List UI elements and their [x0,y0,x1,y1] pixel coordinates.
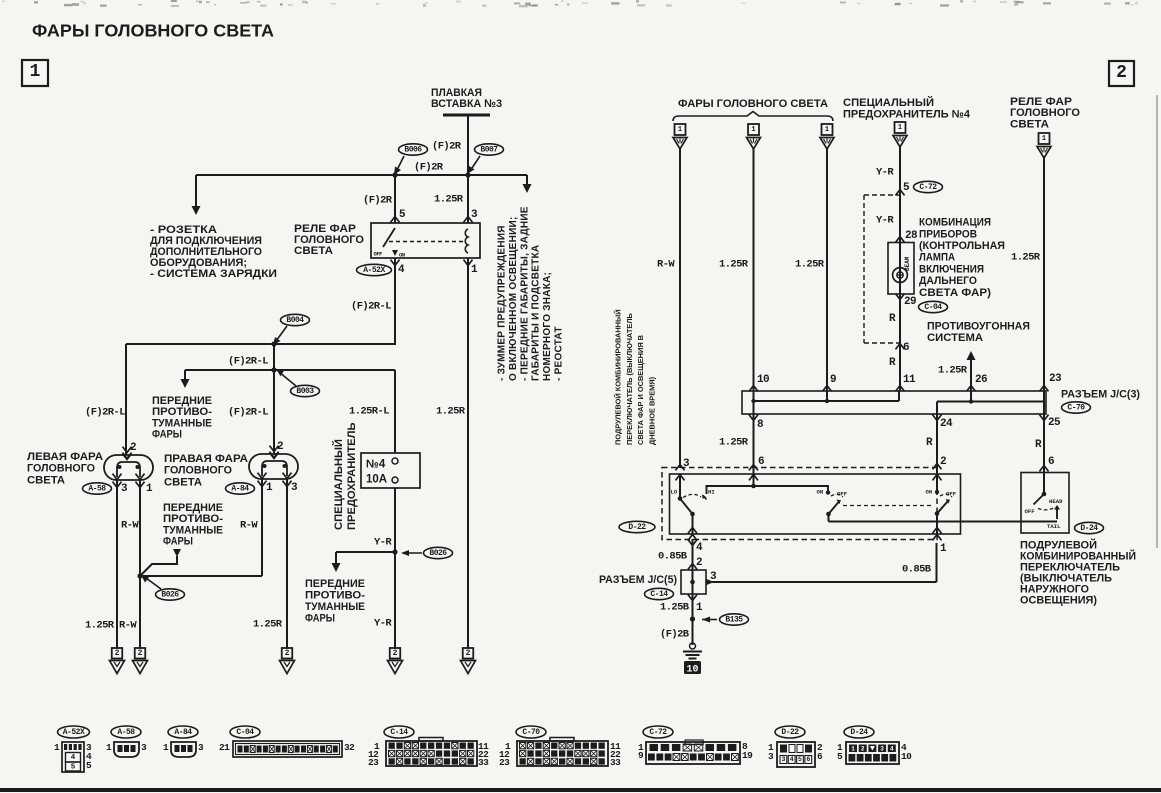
connector oval D-24 ref [1075,522,1104,533]
wire relay pin1 down long 1.25R [467,258,469,648]
beam indicator box [888,243,914,295]
right lamp pin3 wire [286,479,288,648]
passing switch ON-OFF [826,490,830,494]
sheet box 2 [1109,61,1134,86]
svg-text:BEAM: BEAM [904,256,911,271]
svg-text:ФАРЫ: ФАРЫ [305,612,335,624]
anti-theft arrow [970,358,972,391]
svg-text:1: 1 [678,126,682,134]
svg-text:3: 3 [198,742,204,753]
page bottom rule [0,788,1161,792]
svg-text:- СИСТЕМА ЗАРЯДКИ: - СИСТЕМА ЗАРЯДКИ [150,268,277,280]
svg-text:10: 10 [901,751,912,762]
svg-text:ГАБАРИТЫ И ПОДСВЕТКА: ГАБАРИТЫ И ПОДСВЕТКА [531,245,542,381]
svg-text:6: 6 [806,756,810,763]
dimmer output wire pin4 [692,514,694,534]
svg-text:ПЕРЕДНИЕ: ПЕРЕДНИЕ [152,395,212,407]
wire 1.25R c2 b [826,149,828,391]
svg-text:6: 6 [903,342,909,354]
terminal 2 mid [282,648,293,659]
headlamp relay K1 [371,223,480,258]
node y344 [271,341,276,346]
main switch output pin1 [936,514,938,535]
connector D-22 [775,726,805,738]
terminal 2 relay wire [463,648,474,659]
tail line to D-24 [829,521,1058,523]
svg-text:29: 29 [904,296,916,308]
svg-text:- РЕОСТАТ: - РЕОСТАТ [554,326,565,381]
left lamp pin3 wire [116,480,118,648]
main light switch ON-OFF [936,474,938,492]
svg-text:ФАРЫ ГОЛОВНОГО СВЕТА: ФАРЫ ГОЛОВНОГО СВЕТА [678,98,828,110]
svg-text:D-24: D-24 [850,728,868,737]
JC3 left bus [753,391,755,414]
svg-text:СВЕТА ФАР): СВЕТА ФАР) [919,287,991,299]
svg-text:№4: №4 [366,458,386,470]
svg-text:5: 5 [903,182,910,194]
connector C-14 [384,726,414,738]
svg-text:ТУМАННЫЕ: ТУМАННЫЕ [305,601,365,613]
connector C-72 [643,726,673,738]
passing arm [829,502,840,515]
terminal 2 fuse wire [390,648,401,659]
svg-text:1.25R: 1.25R [436,406,466,418]
connector oval B003 [291,385,320,396]
svg-text:ТУМАННЫЕ: ТУМАННЫЕ [163,524,223,536]
svg-text:B135: B135 [725,615,743,624]
svg-text:1.25R: 1.25R [85,620,115,632]
page right border [1156,95,1158,548]
wire pin6 into HI feed [753,474,755,486]
connector oval A-84 [226,483,255,494]
connector oval B026 right [424,547,453,558]
svg-text:1.25R: 1.25R [1011,252,1041,264]
svg-text:1.25R-L: 1.25R-L [349,406,389,418]
svg-text:C-04: C-04 [924,303,942,312]
connector A-84 [168,726,198,738]
connector oval C-72 ref [914,181,943,192]
svg-text:- ПЕРЕДНИЕ ГАБАРИТЫ, ЗАДНИЕ: - ПЕРЕДНИЕ ГАБАРИТЫ, ЗАДНИЕ [519,206,530,381]
svg-text:2: 2 [393,649,398,658]
svg-text:3: 3 [710,571,717,583]
svg-text:10: 10 [686,665,698,676]
connector oval C-04 ref [919,301,948,312]
D-24 off arm [1034,494,1045,505]
node y576 [137,573,142,578]
column switch name left rotated [614,309,657,445]
svg-text:СВЕТА ФАР И ОСВЕЩЕНИЯ В: СВЕТА ФАР И ОСВЕЩЕНИЯ В [636,335,645,445]
svg-text:ON: ON [817,489,824,496]
svg-text:2: 2 [696,557,702,569]
svg-text:0.85B: 0.85B [902,564,932,576]
svg-text:R-W: R-W [119,620,137,632]
svg-text:КОМБИНИРОВАННЫЙ: КОМБИНИРОВАННЫЙ [1020,549,1136,562]
source terminal lamp RH [822,124,833,135]
svg-text:R: R [1035,439,1042,451]
svg-text:5: 5 [71,763,76,771]
svg-text:C-14: C-14 [390,728,408,737]
svg-text:3: 3 [880,746,884,753]
wire below JC5 [692,594,694,645]
svg-text:C-70: C-70 [1067,403,1085,412]
svg-text:A-52X: A-52X [63,728,85,737]
connector oval A-52X [357,264,392,275]
svg-text:B007: B007 [480,145,498,154]
svg-text:B006: B006 [404,145,422,154]
svg-text:21: 21 [219,742,230,753]
connector oval B004 [281,314,310,325]
svg-text:6: 6 [817,751,823,762]
svg-text:1: 1 [751,126,755,134]
svg-text:ПРЕДОХРАНИТЕЛЬ №4: ПРЕДОХРАНИТЕЛЬ №4 [843,108,970,120]
dashed meter box [864,194,900,196]
dimmer contact LO-HI [679,474,681,497]
svg-text:C-14: C-14 [650,590,668,599]
node at x395 y175 [392,172,397,177]
svg-text:НОМЕРНОГО ЗНАКА;: НОМЕРНОГО ЗНАКА; [542,272,553,381]
node B135 [690,616,695,621]
svg-text:R-W: R-W [240,520,258,532]
svg-text:19: 19 [742,750,753,761]
svg-text:5: 5 [399,209,406,221]
svg-text:9: 9 [638,750,644,761]
passing output to tail line [828,514,830,522]
svg-text:ЛЕВАЯ ФАРА: ЛЕВАЯ ФАРА [27,451,103,463]
wire 1.25R c2 a [753,149,755,391]
left headlamp A-58 [104,455,153,480]
svg-text:ЛАМПА: ЛАМПА [919,252,955,264]
scan noise top edge [2,0,1138,7]
svg-text:5: 5 [86,760,92,771]
node y370 [271,367,276,372]
svg-text:1.25R: 1.25R [253,619,283,631]
svg-text:(F)2B: (F)2B [660,629,690,641]
wire JC3 pin24 down [936,414,938,492]
svg-text:ФАРЫ: ФАРЫ [152,429,182,441]
svg-text:СПЕЦИАЛЬНЫЙ: СПЕЦИАЛЬНЫЙ [843,96,934,109]
svg-text:(F)2R-L: (F)2R-L [228,407,268,419]
wire relay c2 down [1043,158,1045,391]
fog lamp branch from node [140,556,177,576]
D-24 head-tail switch box [1021,473,1069,534]
svg-text:ВКЛЮЧЕНИЯ: ВКЛЮЧЕНИЯ [919,263,984,275]
junction box JC3 [742,391,1046,414]
svg-text:HEAD: HEAD [1049,498,1063,505]
bus wire y344 [126,343,396,345]
bus wire y576 [140,575,262,577]
svg-text:26: 26 [975,374,987,386]
dimmer arm [680,499,693,515]
mechanical link dashed [843,505,931,507]
svg-text:10: 10 [757,374,769,386]
svg-text:3: 3 [781,756,785,763]
svg-text:2: 2 [861,746,865,753]
pin 6 dashed box exit [896,344,905,350]
svg-text:23: 23 [1049,373,1062,385]
terminal 2 left a [112,648,123,659]
svg-text:Y-R: Y-R [374,618,392,630]
svg-text:(F)2R-L: (F)2R-L [85,407,125,419]
svg-text:1: 1 [696,602,703,614]
svg-text:1.25R: 1.25R [434,194,464,206]
svg-text:OFF: OFF [1025,508,1036,515]
svg-text:(КОНТРОЛЬНАЯ: (КОНТРОЛЬНАЯ [919,240,1005,252]
wire fuse c2 down [899,147,901,391]
wire relay pin4 down [394,258,396,344]
connector C-70 [516,726,546,738]
svg-text:О ВКЛЮЧЕННОМ ОСВЕЩЕНИИ;: О ВКЛЮЧЕННОМ ОСВЕЩЕНИИ; [508,216,519,381]
svg-text:A-58: A-58 [88,484,106,493]
wire below fuse [394,488,396,648]
ground ref 10 [684,661,701,674]
connector A-58 [111,726,141,738]
svg-text:ГОЛОВНОГО: ГОЛОВНОГО [27,463,95,475]
svg-text:R: R [926,437,933,449]
fog branch y552 [336,551,395,553]
D-24 input wire [1043,473,1045,495]
fuse terminals [392,458,398,464]
svg-text:4: 4 [398,264,405,276]
svg-text:3: 3 [121,483,128,495]
svg-text:ПЕРЕКЛЮЧАТЕЛЬ (ВЫКЛЮЧАТЕЛЬ: ПЕРЕКЛЮЧАТЕЛЬ (ВЫКЛЮЧАТЕЛЬ [625,312,634,445]
node y552 [392,549,397,554]
svg-text:СВЕТА: СВЕТА [164,476,202,488]
column switch dashed box D-22 [662,468,937,540]
svg-text:2: 2 [130,442,136,454]
bus wire y175 [196,174,527,176]
svg-text:C-72: C-72 [919,183,937,192]
JC3 right bus [937,401,1044,403]
pin 29 [896,294,905,300]
svg-text:C-70: C-70 [522,728,540,737]
fusible link bar [443,114,490,117]
column switch solid box [670,474,961,534]
source terminal lamp mid [748,124,759,135]
svg-text:2: 2 [138,649,143,658]
svg-text:6: 6 [1048,456,1054,468]
svg-text:R-W: R-W [657,259,675,271]
svg-text:1: 1 [30,62,41,82]
connector A-52X [58,726,90,738]
svg-text:A-58: A-58 [117,728,135,737]
svg-text:ПРОТИВОУГОННАЯ: ПРОТИВОУГОННАЯ [927,321,1030,333]
svg-text:23: 23 [499,757,510,768]
right lamp pin1 wire [261,479,263,576]
svg-text:1: 1 [106,742,112,753]
svg-text:3: 3 [291,482,298,494]
svg-text:ДНЕВНОЕ ВРЕМЯ): ДНЕВНОЕ ВРЕМЯ) [647,376,656,445]
svg-text:ФАРЫ ГОЛОВНОГО СВЕТА: ФАРЫ ГОЛОВНОГО СВЕТА [32,21,274,41]
svg-text:СИСТЕМА: СИСТЕМА [927,332,983,344]
svg-text:ТУМАННЫЕ: ТУМАННЫЕ [152,417,212,429]
svg-text:3: 3 [768,751,774,762]
connector oval D-22 ref [619,521,655,532]
svg-text:R-W: R-W [121,520,139,532]
connector oval B006 [399,144,428,155]
svg-text:6: 6 [758,456,764,468]
svg-text:(F)2R: (F)2R [432,141,462,153]
right headlamp A-84 [249,454,298,479]
wire relay pin5 [394,175,396,223]
svg-text:1.25R: 1.25R [719,259,749,271]
svg-text:РАЗЪЕМ J/C(5): РАЗЪЕМ J/C(5) [599,574,677,586]
wire branch left to accessories arrow [195,175,197,210]
svg-text:1.25B: 1.25B [660,602,690,614]
svg-text:ВСТАВКА №3: ВСТАВКА №3 [431,98,502,110]
svg-text:1: 1 [851,746,855,753]
svg-text:B026: B026 [429,549,447,558]
svg-text:РАЗЪЕМ J/C(3): РАЗЪЕМ J/C(3) [1061,389,1140,401]
wire JC3 pin25 down [1043,414,1045,472]
svg-text:ON: ON [926,489,933,496]
svg-text:1: 1 [471,264,478,276]
svg-text:- ЗУММЕР ПРЕДУПРЕЖДЕНИЯ: - ЗУММЕР ПРЕДУПРЕЖДЕНИЯ [497,225,508,381]
svg-text:1: 1 [940,543,947,555]
svg-text:ОСВЕЩЕНИЯ): ОСВЕЩЕНИЯ) [1020,595,1097,607]
wire right headlamp feed [273,370,275,454]
wire node drop [273,344,275,370]
svg-text:СПЕЦИАЛЬНЫЙ: СПЕЦИАЛЬНЫЙ [332,439,345,530]
wire left headlamp feed [125,344,127,455]
HI feed line [707,486,829,494]
svg-text:1: 1 [266,482,273,494]
JC5 pin3 line [706,581,937,583]
svg-text:ПРЕДОХРАНИТЕЛЬ: ПРЕДОХРАНИТЕЛЬ [346,422,358,530]
svg-text:C-72: C-72 [649,728,667,737]
wire relay pin3 [467,175,469,223]
svg-text:ON: ON [399,252,405,258]
pin 28 [896,237,905,243]
source terminal lamp LH [675,124,686,135]
svg-text:Y-R: Y-R [876,167,894,179]
svg-text:B003: B003 [296,387,314,396]
svg-text:B026: B026 [161,590,179,599]
svg-text:23: 23 [368,757,379,768]
svg-text:A-52X: A-52X [363,266,385,275]
wire branch right to buzzer arrow [526,175,528,188]
svg-text:4: 4 [890,746,894,753]
svg-text:(F)2R-L: (F)2R-L [228,356,268,368]
svg-text:ПРАВАЯ ФАРА: ПРАВАЯ ФАРА [164,453,248,465]
svg-text:ПЕРЕДНИЕ: ПЕРЕДНИЕ [163,502,223,514]
svg-text:ФАРЫ: ФАРЫ [163,536,193,548]
source terminal relay c2 [1039,133,1050,144]
front fog arrow 1 [184,370,186,382]
svg-text:1.25R: 1.25R [938,365,968,377]
svg-text:1: 1 [163,742,169,753]
svg-text:28: 28 [905,230,918,242]
svg-text:A-84: A-84 [231,484,249,493]
svg-text:1: 1 [54,742,60,753]
bus wire y370 [185,369,395,371]
svg-text:ГОЛОВНОГО: ГОЛОВНОГО [164,465,232,477]
svg-text:9: 9 [830,374,836,386]
svg-text:ПРОТИВО-: ПРОТИВО- [152,406,212,418]
svg-text:ГОЛОВНОГО: ГОЛОВНОГО [1010,107,1080,119]
wire JC3 pin8 down [753,414,755,474]
connector oval C-70 ref [1062,402,1091,413]
svg-text:2: 2 [115,649,120,658]
svg-text:СВЕТА: СВЕТА [27,474,65,486]
svg-text:TAIL: TAIL [1047,523,1061,530]
svg-text:HI: HI [708,489,715,496]
svg-text:32: 32 [344,742,355,753]
svg-text:2: 2 [285,649,290,658]
svg-text:ПРОТИВО-: ПРОТИВО- [305,589,365,601]
brace [673,112,833,122]
fuse No4 box [361,453,420,488]
connector oval B007 [475,144,504,155]
connector oval B026 left [156,589,185,600]
ground symbol [690,643,696,649]
svg-text:СВЕТА: СВЕТА [294,245,333,257]
svg-text:ПРИБОРОВ: ПРИБОРОВ [919,228,977,240]
source terminal fuse c2 [895,122,906,133]
svg-text:D-24: D-24 [1080,524,1098,533]
svg-text:0.85B: 0.85B [658,551,688,563]
svg-text:B004: B004 [286,316,304,325]
sheet box 1 [22,60,48,86]
svg-text:1: 1 [898,124,902,132]
svg-text:2: 2 [940,456,946,468]
svg-text:R: R [889,357,896,369]
svg-text:24: 24 [940,418,953,430]
node at x468 y175 [465,172,470,177]
svg-text:2: 2 [1116,63,1127,83]
wire R-W c2 [679,149,681,468]
connector oval C-14 ref [645,588,674,599]
relay coil [465,229,468,253]
junction box JC5 [681,570,706,594]
svg-text:(F)2R: (F)2R [363,195,393,207]
svg-text:(F)2R-L: (F)2R-L [351,301,391,313]
svg-text:33: 33 [478,757,489,768]
D-24 head contact [1056,507,1058,519]
svg-text:КОМБИНАЦИЯ: КОМБИНАЦИЯ [919,217,991,229]
svg-text:1.25R: 1.25R [719,437,749,449]
terminal 2 left b [135,648,146,659]
svg-text:33: 33 [610,757,621,768]
svg-text:11: 11 [903,374,916,386]
wire fusible link down [467,115,469,175]
svg-text:4: 4 [696,542,703,554]
svg-text:4: 4 [790,756,794,763]
svg-text:3: 3 [141,742,147,753]
svg-text:1: 1 [146,483,153,495]
connector C-04 [230,726,260,738]
svg-text:D-22: D-22 [781,728,799,737]
svg-text:(F)2R: (F)2R [414,162,444,174]
svg-text:СВЕТА: СВЕТА [1010,119,1049,131]
main switch pin1 wire down [936,543,938,582]
svg-text:25: 25 [1048,417,1061,429]
svg-text:1: 1 [825,126,829,134]
svg-text:1.25R: 1.25R [795,259,825,271]
svg-text:Y-R: Y-R [374,537,392,549]
connector D-24 [844,726,874,738]
svg-text:5: 5 [798,756,802,763]
svg-text:5: 5 [837,751,843,762]
main switch arm [937,501,948,514]
connector oval A-58 [83,483,112,494]
svg-text:4: 4 [71,754,76,762]
svg-text:2: 2 [277,441,283,453]
svg-text:3: 3 [471,209,478,221]
svg-text:ПЕРЕДНИЕ: ПЕРЕДНИЕ [305,578,365,590]
svg-text:D-22: D-22 [628,523,646,532]
svg-text:OFF: OFF [374,251,383,257]
svg-text:ПОДРУЛЕВОЙ КОМБИНИРОВАННЫЙ: ПОДРУЛЕВОЙ КОМБИНИРОВАННЫЙ [614,309,623,445]
